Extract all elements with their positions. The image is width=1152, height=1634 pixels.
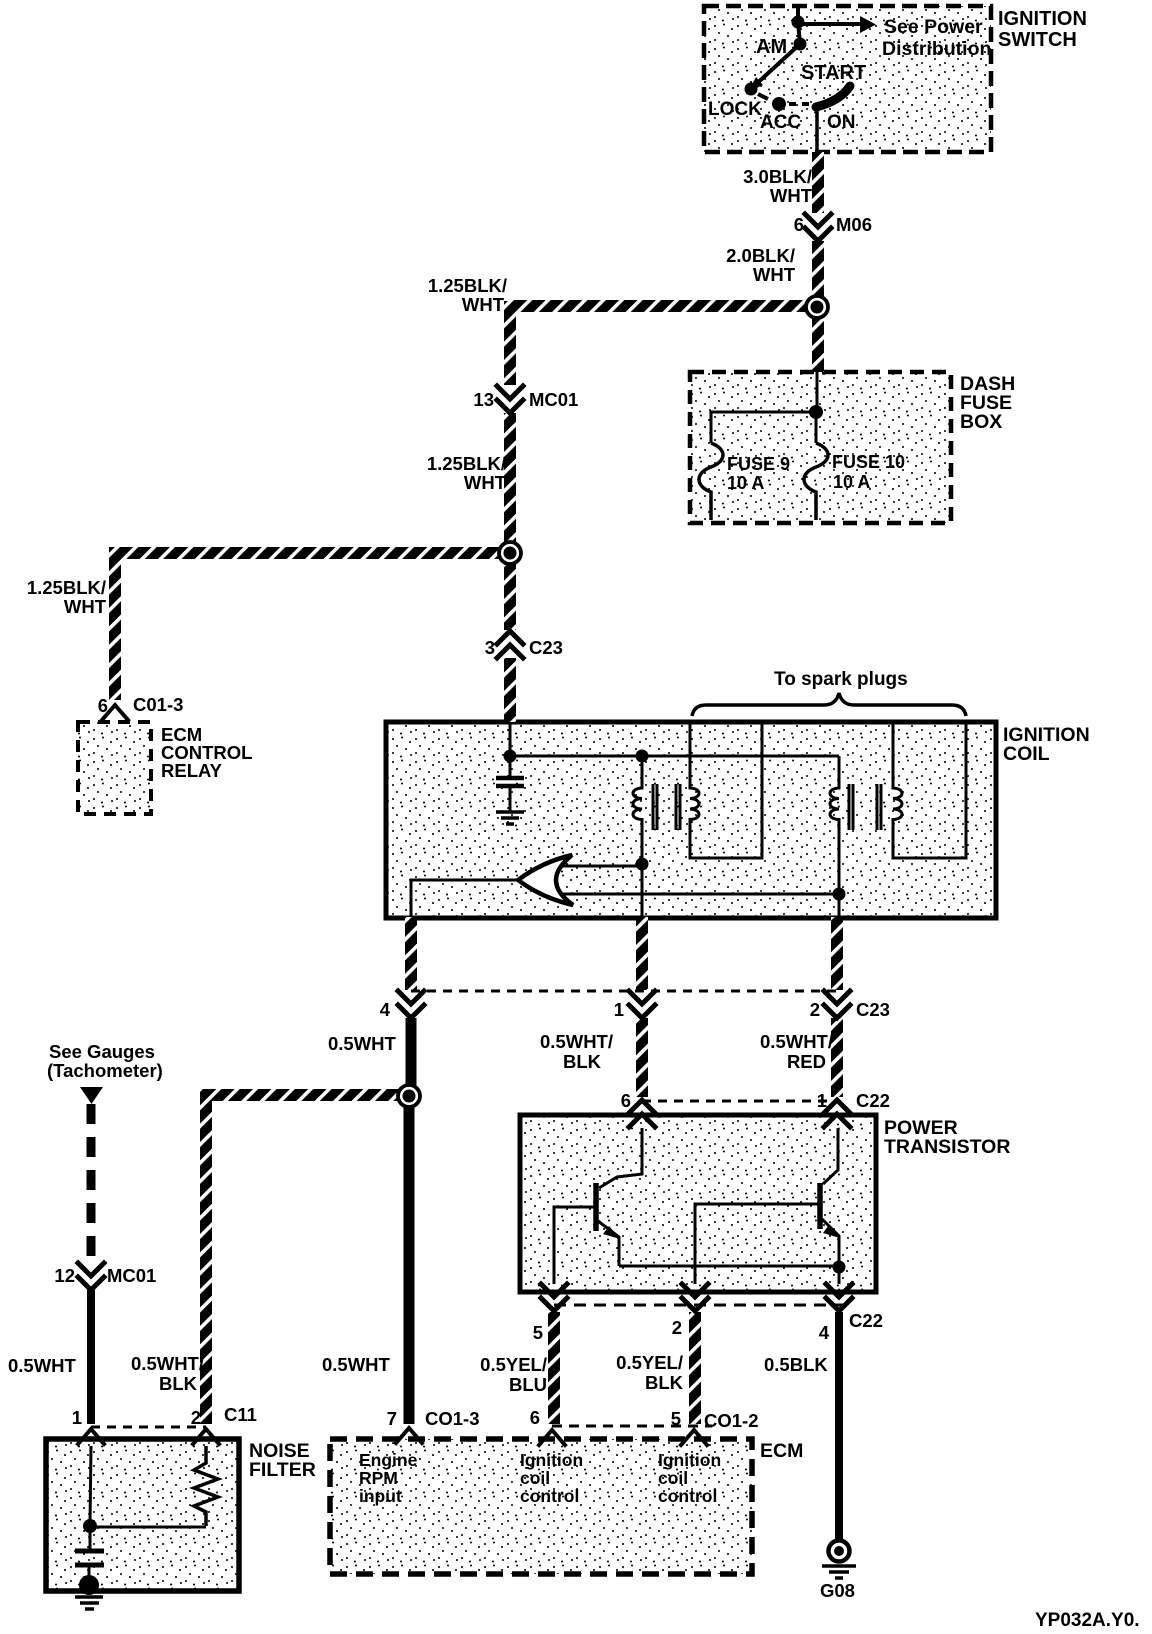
svg-text:BLK: BLK xyxy=(645,1372,684,1393)
svg-text:12: 12 xyxy=(54,1265,75,1286)
node NF dot xyxy=(83,1519,97,1533)
noise filter internals xyxy=(75,1446,218,1609)
wire MC01 12 to noise filter 1 (0.5WHT) xyxy=(87,1290,95,1424)
svg-text:BLU: BLU xyxy=(509,1374,547,1395)
svg-text:input: input xyxy=(359,1486,402,1506)
svg-text:1: 1 xyxy=(614,999,624,1020)
wire C23 to ignition coil xyxy=(504,658,516,722)
svg-text:2.0BLK/: 2.0BLK/ xyxy=(726,245,795,266)
svg-text:FILTER: FILTER xyxy=(249,1459,316,1481)
arrowhead see power distribution xyxy=(860,16,876,33)
svg-text:BLK: BLK xyxy=(159,1373,198,1394)
svg-text:FUSE 9: FUSE 9 xyxy=(727,454,790,474)
connector C22 pin 6 xyxy=(629,1100,655,1127)
wire transistor 5 to ECM 6 (0.5YEL/BLU) xyxy=(548,1312,560,1424)
wire coil out 4 upper xyxy=(405,917,417,990)
svg-text:6: 6 xyxy=(621,1090,631,1111)
wire rotor line lower xyxy=(560,893,839,896)
switch wiper ON arc xyxy=(816,86,850,107)
transistor Q1 base bar xyxy=(593,1183,599,1231)
transformer T2 primary xyxy=(830,756,839,894)
transformer T1 secondary xyxy=(690,722,762,858)
transformer T2 secondary xyxy=(893,722,966,858)
connector C22 pin 4 xyxy=(826,1284,852,1311)
svg-text:AM: AM xyxy=(756,36,787,58)
wire transistor 2 to ECM 5 (0.5YEL/BLK) xyxy=(689,1312,701,1424)
junction M06/fusebox bullseye xyxy=(806,296,828,318)
svg-text:G08: G08 xyxy=(820,1580,855,1601)
wire AM to LOCK xyxy=(753,44,800,87)
wire branch down to MC01 13 xyxy=(504,301,516,385)
wire M06 to fuse box (2.0BLK/WHT) xyxy=(812,241,824,372)
dash fuse box xyxy=(690,372,951,523)
link C22 top row xyxy=(642,1100,838,1103)
svg-text:C22: C22 xyxy=(849,1310,883,1331)
wire capacitor to ground xyxy=(509,786,512,812)
node AM upper dot xyxy=(792,16,805,29)
svg-text:WHT: WHT xyxy=(64,596,107,617)
connector C23 pin 4 xyxy=(398,991,424,1018)
noise filter box xyxy=(46,1439,239,1591)
node LOCK dot xyxy=(745,83,758,96)
junction MC01/relay bullseye xyxy=(499,542,521,564)
wire into fuse node xyxy=(816,372,819,412)
svg-text:ECM: ECM xyxy=(760,1440,803,1462)
connector CO1-2 pin 5 xyxy=(681,1430,707,1445)
wire rotor to exit 4 xyxy=(411,880,518,917)
wire coil feed horizontal xyxy=(510,755,839,758)
svg-text:5: 5 xyxy=(533,1322,543,1343)
ground in coil xyxy=(496,812,524,824)
svg-text:WHT: WHT xyxy=(770,185,813,206)
dash fuse box internals xyxy=(699,372,828,520)
wire switch pivot down xyxy=(815,108,819,152)
svg-text:1.25BLK/: 1.25BLK/ xyxy=(27,577,106,598)
svg-text:YP032A.Y0.: YP032A.Y0. xyxy=(1035,1610,1140,1631)
svg-text:1.25BLK/: 1.25BLK/ xyxy=(427,453,506,474)
svg-text:MC01: MC01 xyxy=(529,389,578,410)
connector C01-3 pin 6 xyxy=(102,705,128,720)
svg-text:Distribution: Distribution xyxy=(882,38,991,60)
svg-text:Engine: Engine xyxy=(359,1450,418,1470)
ECM box xyxy=(330,1439,752,1574)
svg-text:7: 7 xyxy=(387,1408,397,1429)
ground NF xyxy=(75,1597,103,1609)
svg-text:See Power: See Power xyxy=(884,16,983,38)
connector C22 pin 5 xyxy=(541,1284,567,1311)
wire junction to noise filter 2 (0.5WHT/BLK) xyxy=(206,1095,398,1424)
fuse F10 symbol xyxy=(804,443,828,520)
transistor Q1 collector xyxy=(599,1128,642,1188)
svg-text:BLK: BLK xyxy=(563,1051,602,1072)
link CO1-2 row xyxy=(552,1425,712,1428)
node T1 bottom dot xyxy=(636,858,649,871)
svg-text:0.5WHT: 0.5WHT xyxy=(8,1355,77,1376)
svg-text:(Tachometer): (Tachometer) xyxy=(47,1060,163,1081)
svg-text:control: control xyxy=(520,1486,579,1506)
power transistor internals xyxy=(554,1128,839,1284)
arrowhead Q1 emitter xyxy=(603,1226,620,1239)
svg-text:coil: coil xyxy=(658,1468,688,1488)
wire capacitor to case ground xyxy=(88,1565,91,1580)
svg-text:1.25BLK/: 1.25BLK/ xyxy=(428,275,507,296)
wire T1 primary to exit 1 xyxy=(641,864,644,917)
link C23 row xyxy=(411,990,838,993)
node AM lower dot xyxy=(794,38,807,51)
svg-text:MC01: MC01 xyxy=(107,1265,156,1286)
fuse F9 symbol xyxy=(699,443,723,520)
wire rotor line upper xyxy=(560,865,642,868)
wire junction to ECM 7 (0.5WHT) xyxy=(404,1100,415,1424)
wire coil out 2 upper xyxy=(831,917,843,990)
svg-text:C01-3: C01-3 xyxy=(133,694,183,715)
capacitor C plates xyxy=(496,778,524,786)
wire MC01 to junction (1.25BLK/WHT) xyxy=(504,413,516,558)
wire junction to C23 3 xyxy=(504,558,516,630)
svg-text:C11: C11 xyxy=(224,1404,257,1425)
node T1 top dot xyxy=(636,750,649,763)
wire 1 to power transistor 6 (0.5WHT/BLK) xyxy=(636,1018,648,1097)
svg-text:0.5WHT: 0.5WHT xyxy=(322,1354,391,1375)
connector MC01 pin 12 xyxy=(78,1263,104,1290)
svg-text:CO1-2: CO1-2 xyxy=(704,1410,759,1431)
svg-text:TRANSISTOR: TRANSISTOR xyxy=(884,1136,1010,1158)
svg-text:LOCK: LOCK xyxy=(708,99,762,120)
svg-text:RED: RED xyxy=(787,1051,826,1072)
svg-text:2: 2 xyxy=(191,1407,201,1428)
svg-text:RELAY: RELAY xyxy=(161,760,223,781)
svg-text:RPM: RPM xyxy=(359,1468,398,1488)
svg-text:4: 4 xyxy=(380,999,391,1020)
svg-text:coil: coil xyxy=(520,1468,550,1488)
arrowhead to LOCK xyxy=(748,77,763,92)
svg-text:0.5BLK: 0.5BLK xyxy=(764,1354,828,1375)
node fuse junction dot xyxy=(809,405,823,419)
svg-text:WHT: WHT xyxy=(464,472,507,493)
wire tachometer dashed xyxy=(87,1104,96,1262)
svg-text:Ignition: Ignition xyxy=(520,1450,583,1470)
connector C23 pin 2 xyxy=(824,991,850,1018)
wire coil 4 to junction (0.5WHT) xyxy=(406,1018,417,1092)
connector C22 pin 2 xyxy=(682,1284,708,1311)
dashed connector links xyxy=(91,991,847,1427)
ECM control relay box xyxy=(78,722,151,814)
connector C11 pin 1 xyxy=(78,1429,104,1444)
ignition coil internals xyxy=(411,722,966,917)
wire AM node pair xyxy=(798,22,800,44)
wire transistor 4 to G08 (0.5BLK) xyxy=(835,1312,843,1540)
svg-text:IGNITION: IGNITION xyxy=(998,8,1087,30)
svg-text:0.5WHT/: 0.5WHT/ xyxy=(760,1031,833,1052)
svg-text:5: 5 xyxy=(671,1408,681,1429)
wire junction left to ECM control relay xyxy=(115,553,516,700)
svg-text:0.5WHT: 0.5WHT xyxy=(328,1033,397,1054)
svg-text:6: 6 xyxy=(98,695,108,716)
svg-text:0.5WHT/: 0.5WHT/ xyxy=(131,1353,204,1374)
svg-text:6: 6 xyxy=(530,1407,540,1428)
link C11 row xyxy=(91,1426,206,1429)
resistor NF xyxy=(194,1446,218,1526)
wire ignition switch to M06 (3.0BLK/WHT) xyxy=(812,152,824,213)
connector C11 pin 2 xyxy=(193,1429,219,1444)
node NF case dot xyxy=(79,1575,99,1595)
svg-text:3.0BLK/: 3.0BLK/ xyxy=(743,166,812,187)
svg-text:2: 2 xyxy=(672,1317,682,1338)
transistor Q1 emitter xyxy=(598,1221,619,1266)
wire stub box top to AM node xyxy=(796,8,800,22)
svg-text:1: 1 xyxy=(817,1090,827,1111)
ignition switch box xyxy=(704,6,991,152)
node coil feed dot xyxy=(504,750,517,763)
svg-text:0.5YEL/: 0.5YEL/ xyxy=(616,1352,683,1373)
connector CO1-2 pin 6 xyxy=(539,1430,565,1445)
svg-text:4: 4 xyxy=(819,1322,830,1343)
svg-text:See Gauges: See Gauges xyxy=(49,1041,155,1062)
wire fuse node to fuse 9 xyxy=(711,412,816,443)
dashed link LOCK-ACC xyxy=(758,94,768,99)
svg-text:ON: ON xyxy=(827,112,856,133)
connector C22 pin 1 xyxy=(824,1100,850,1127)
svg-text:13: 13 xyxy=(473,389,494,410)
brace to spark plugs xyxy=(692,693,966,716)
svg-text:6: 6 xyxy=(794,214,804,235)
connector C23 pin 1 xyxy=(629,991,655,1018)
wire coil out 1 upper xyxy=(636,917,648,990)
wire resistor to dot xyxy=(90,1526,206,1529)
node T2 bottom dot xyxy=(833,888,846,901)
transformer T2 core xyxy=(849,784,881,830)
svg-text:WHT: WHT xyxy=(462,294,505,315)
svg-text:M06: M06 xyxy=(836,214,872,235)
ignition coil box xyxy=(386,722,996,918)
svg-text:BOX: BOX xyxy=(960,411,1002,433)
svg-text:2: 2 xyxy=(810,999,820,1020)
svg-text:START: START xyxy=(801,62,866,84)
svg-text:C23: C23 xyxy=(856,999,890,1020)
svg-text:WHT: WHT xyxy=(753,264,796,285)
transistor Q2 base bar xyxy=(817,1183,823,1229)
transistor Q2 collector xyxy=(823,1128,838,1184)
wire T2 primary to exit 2 xyxy=(838,894,841,917)
svg-text:C23: C23 xyxy=(529,637,563,658)
transistor Q2 base wire xyxy=(695,1204,820,1284)
ground G08 xyxy=(822,1541,856,1579)
svg-text:control: control xyxy=(658,1486,717,1506)
transformer T1 core xyxy=(653,784,680,830)
wire coil feed down xyxy=(509,722,512,776)
svg-text:SWITCH: SWITCH xyxy=(998,29,1077,51)
connector MC01 pin 13 xyxy=(497,386,523,413)
dashed link ACC to pivot xyxy=(789,102,812,106)
node ACC dot xyxy=(772,97,786,111)
ignition switch internals xyxy=(753,8,860,152)
wire pin1 down xyxy=(90,1446,91,1524)
svg-text:Ignition: Ignition xyxy=(658,1450,721,1470)
wire see power distribution arrow line xyxy=(798,22,860,26)
see gauges arrow xyxy=(80,1087,103,1104)
svg-text:0.5YEL/: 0.5YEL/ xyxy=(480,1354,547,1375)
arrowhead Q2 emitter xyxy=(823,1225,840,1238)
junction tach branch bullseye xyxy=(398,1085,420,1107)
wire 2 to power transistor 1 (0.5WHT/RED) xyxy=(831,1018,843,1097)
connector M06 pin 6 xyxy=(805,214,831,241)
wire fuse 10 xyxy=(815,412,818,443)
capacitor NF plates xyxy=(75,1551,104,1565)
connector C23 pin 3 xyxy=(497,631,523,658)
svg-text:FUSE 10: FUSE 10 xyxy=(832,452,905,472)
link C22 bottom row xyxy=(554,1304,847,1307)
transistor Q2 emitter xyxy=(822,1219,839,1284)
power transistor box xyxy=(520,1115,876,1292)
rotor arrow xyxy=(518,855,573,905)
wire dot to capacitor xyxy=(89,1526,92,1549)
svg-text:To spark plugs: To spark plugs xyxy=(774,669,908,690)
svg-text:1: 1 xyxy=(72,1407,82,1428)
wire main horizontal branch (1.25BLK/WHT) xyxy=(510,300,818,312)
svg-text:CO1-3: CO1-3 xyxy=(425,1408,480,1429)
node emitter junction dot xyxy=(833,1261,846,1274)
svg-text:0.5WHT/: 0.5WHT/ xyxy=(540,1031,613,1052)
svg-text:ACC: ACC xyxy=(760,112,801,133)
svg-text:3: 3 xyxy=(485,637,495,658)
svg-text:10 A: 10 A xyxy=(833,472,870,492)
svg-text:10 A: 10 A xyxy=(727,473,764,493)
wire Q1 emitter to node xyxy=(619,1265,839,1268)
transformer T1 primary xyxy=(633,756,642,864)
transistor Q1 base wire xyxy=(554,1207,596,1284)
connector CO1-3 pin 7 xyxy=(396,1428,422,1443)
svg-text:COIL: COIL xyxy=(1003,743,1050,765)
svg-text:C22: C22 xyxy=(856,1090,890,1111)
